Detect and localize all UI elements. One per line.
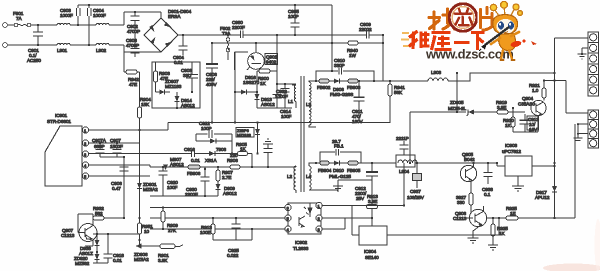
svg-text:100F: 100F <box>167 185 178 190</box>
svg-text:R906: R906 <box>227 158 238 163</box>
diode D909 AS012 <box>216 181 238 196</box>
wire lower snubber line <box>212 42 383 44</box>
capacitor C904b 0.01 <box>173 34 188 65</box>
svg-text:15K: 15K <box>141 102 150 107</box>
svg-text:1000F: 1000F <box>93 13 106 18</box>
bias box bottom rail <box>152 107 200 109</box>
svg-text:16V: 16V <box>529 127 538 132</box>
transformer secondary winding L4 <box>306 162 338 190</box>
watermark char pian <box>481 8 493 31</box>
svg-text:ERSA: ERSA <box>168 14 181 19</box>
main HV vertical bus <box>234 52 236 123</box>
inductor L902 <box>96 23 109 53</box>
svg-text:SE140: SE140 <box>365 255 379 260</box>
top ground bus <box>78 4 332 6</box>
svg-text:MZ1183: MZ1183 <box>165 84 182 89</box>
svg-text:220: 220 <box>230 153 238 158</box>
svg-text:AC250: AC250 <box>27 58 41 63</box>
wire <box>70 24 96 26</box>
wire pin1 riser <box>123 52 125 72</box>
wire <box>109 45 161 52</box>
svg-text:C907A: C907A <box>92 138 107 143</box>
IC904 SE140 <box>359 226 387 260</box>
wire <box>31 24 57 26</box>
svg-text:TL2633: TL2633 <box>293 246 309 251</box>
capacitor C909 2200P <box>359 22 383 39</box>
svg-text:AS012: AS012 <box>170 162 184 167</box>
wire <box>243 34 366 36</box>
svg-text:1.0: 1.0 <box>532 88 539 93</box>
capacitor C907A 680P <box>92 138 107 157</box>
IC902 pin 4 <box>285 226 291 232</box>
snubber cap over secondary <box>320 139 361 163</box>
diode D914 AS012 <box>175 92 196 108</box>
zener ZD920 MZ582 <box>74 251 100 266</box>
resistor R942 47E <box>124 70 140 87</box>
mascot brush <box>479 27 537 51</box>
svg-text:1K: 1K <box>499 231 506 236</box>
ground line under 907 caps <box>100 157 124 218</box>
resistor R913 3.9E <box>367 186 379 209</box>
capacitor C907 1500P <box>110 138 123 157</box>
wire lower returns <box>150 180 218 196</box>
IC902 pin 1 <box>316 202 322 208</box>
svg-text:22002: 22002 <box>359 27 372 32</box>
pin 5 <box>82 173 150 179</box>
resistor R951 10 <box>137 216 153 246</box>
capacitor C932 1000P <box>273 83 289 108</box>
capacitor C925 0.022 <box>227 228 253 258</box>
svg-text:1K: 1K <box>505 123 512 128</box>
inductor L903 <box>383 70 555 81</box>
svg-text:680P: 680P <box>94 144 105 149</box>
IC902 internal LED <box>304 207 312 215</box>
wire R921 top to connector <box>544 81 588 114</box>
svg-text:33U: 33U <box>183 73 192 78</box>
ferrite bead FB904 <box>318 161 332 173</box>
diode D910 PML-G125 <box>329 161 351 180</box>
svg-text:562: 562 <box>95 211 103 216</box>
wire to top connector <box>555 37 589 39</box>
wire Q907 emitter to rail <box>85 240 93 246</box>
AC input terminal bottom <box>3 43 8 48</box>
capacitor C920 100P <box>159 166 179 190</box>
capacitor C903 1000P <box>60 5 80 26</box>
svg-text:2.7E: 2.7E <box>222 175 231 180</box>
svg-text:FB906: FB906 <box>187 171 201 176</box>
diode D913 AS012 <box>255 71 276 108</box>
svg-text:B042: B042 <box>464 157 475 162</box>
IC902 internal phototransistor <box>298 217 300 226</box>
watermark magnifier with xin <box>449 4 477 32</box>
mid connector strip CN2 <box>588 110 599 148</box>
mascot body <box>491 32 519 60</box>
capacitor C911 470/160V <box>352 80 365 124</box>
svg-text:FMG-G26S: FMG-G26S <box>330 92 353 97</box>
svg-text:STR-D6601: STR-D6601 <box>47 119 71 124</box>
IC902 pin 3 <box>316 226 322 232</box>
pin 4 <box>82 162 150 168</box>
svg-text:L1: L1 <box>288 99 294 104</box>
svg-text:400V: 400V <box>206 82 218 87</box>
svg-text:7A: 7A <box>16 16 23 21</box>
svg-text:L3: L3 <box>306 102 312 107</box>
ferrite bead FB906 <box>187 165 201 176</box>
svg-text:25V: 25V <box>356 196 365 201</box>
svg-text:FB.1: FB.1 <box>334 144 344 149</box>
resistor R903 47E <box>154 62 171 92</box>
capacitor C924 <box>213 217 241 240</box>
svg-text:APU12: APU12 <box>535 195 550 200</box>
svg-text:3.9K: 3.9K <box>158 258 168 263</box>
svg-text:C35AS0: C35AS0 <box>518 102 535 107</box>
capacitor C922 100P <box>196 121 233 155</box>
capacitor C937 103/25V <box>407 162 425 200</box>
svg-text:100F: 100F <box>281 114 292 119</box>
wire riser from top bus <box>331 5 333 71</box>
svg-text:L2: L2 <box>287 174 293 179</box>
svg-text:4700P: 4700P <box>126 43 139 48</box>
svg-text:100P: 100P <box>288 14 299 19</box>
diode D907 AS012 <box>163 157 184 170</box>
watermark speed dashes <box>401 33 409 46</box>
resistor R900 1K <box>257 69 277 86</box>
capacitor C918 0.01 <box>104 233 125 263</box>
svg-text:MZ5A2: MZ5A2 <box>143 187 158 192</box>
B+ to connector vertical <box>554 38 556 163</box>
watermark red text ku <box>432 33 452 51</box>
wire <box>7 44 57 46</box>
diode D908 XS1A <box>205 147 238 163</box>
svg-text:0.01: 0.01 <box>174 60 183 65</box>
electrolytic C912 2200/25V <box>355 162 378 201</box>
capacitor C908 33U <box>181 62 198 92</box>
svg-text:C1213: C1213 <box>453 216 467 221</box>
right area verticals <box>410 73 457 163</box>
pink smudge bottom right <box>543 264 600 271</box>
capacitor C902 4700P <box>127 11 140 45</box>
bias supply box <box>152 62 200 108</box>
capacitor C914 100F <box>280 83 292 119</box>
ground secondary <box>333 180 343 191</box>
svg-text:PML-G125: PML-G125 <box>329 174 351 179</box>
inductor L901 <box>57 23 70 53</box>
svg-text:0.01: 0.01 <box>191 158 200 163</box>
svg-text:C1213: C1213 <box>61 233 75 238</box>
svg-text:IC902: IC902 <box>295 240 308 245</box>
transistor Q906 C1213 <box>453 206 487 227</box>
AC input terminal top <box>3 23 8 28</box>
svg-text:IC904: IC904 <box>364 249 377 254</box>
wire collector bus down to transformer <box>276 35 278 84</box>
transformer T901 core <box>301 76 304 192</box>
mascot head <box>493 15 518 35</box>
svg-text:IC901: IC901 <box>55 113 68 118</box>
svg-text:56K: 56K <box>394 90 403 95</box>
capacitor C901 <box>27 24 43 63</box>
svg-text:1000F: 1000F <box>275 94 288 99</box>
svg-text:0.47: 0.47 <box>112 186 121 191</box>
wire Q907 base <box>78 214 93 233</box>
secondary output rail <box>316 162 497 164</box>
svg-text:XS1A: XS1A <box>205 158 218 163</box>
resistor R910 1K <box>503 107 515 132</box>
svg-text:C907: C907 <box>110 138 121 143</box>
diode D906 FMG-G26S <box>329 79 353 98</box>
zener ZD905 MZ25-2L <box>410 100 497 116</box>
svg-text:C916: C916 <box>184 147 195 152</box>
svg-text:160V: 160V <box>352 119 364 124</box>
svg-text:4700P: 4700P <box>127 29 140 34</box>
IC903 uPC7812 <box>496 143 556 176</box>
IC902 pin 2 <box>316 215 322 221</box>
ferrite bead FB902 <box>315 79 331 90</box>
svg-text:AS012: AS012 <box>223 191 237 196</box>
connector CN2 ground loop <box>574 123 589 140</box>
resistor R913b 100E <box>200 217 215 240</box>
resistor R907 2.7E <box>216 166 233 181</box>
svg-text:100P: 100P <box>201 126 212 131</box>
ferrite bead FB903 <box>347 79 383 90</box>
svg-text:D910: D910 <box>333 168 344 173</box>
IC903 ground <box>512 176 524 191</box>
pin 3 <box>82 151 191 157</box>
standby rail vertical <box>574 124 576 218</box>
ferrite bead FB905 <box>347 161 361 173</box>
svg-text:FB902: FB902 <box>317 85 331 90</box>
watermark red text xia <box>471 33 485 51</box>
resistor R919 3.9E <box>496 100 525 114</box>
resistor R925 1K <box>488 218 508 250</box>
IC902 pin 5 <box>285 215 291 221</box>
IC901 STR-D6601 <box>45 113 82 186</box>
resistor R927 330 <box>456 181 473 218</box>
wires into IC902 left <box>150 208 285 230</box>
capacitor C904 1000P <box>87 4 106 46</box>
wire bias to transformer <box>257 84 296 108</box>
resistor R901 3.9K <box>150 244 183 263</box>
svg-text:AS012: AS012 <box>261 102 275 107</box>
svg-text:1K: 1K <box>240 147 247 152</box>
pin 2 <box>82 140 139 146</box>
svg-text:MZ582: MZ582 <box>75 261 90 266</box>
svg-text:L4: L4 <box>306 174 312 179</box>
svg-text:FB905: FB905 <box>347 168 361 173</box>
diode D916 1SS270 <box>235 75 260 95</box>
wires out IC902 right <box>322 206 404 230</box>
diode D938 AS01Z <box>79 233 100 256</box>
svg-text:1W: 1W <box>349 53 357 58</box>
wire <box>70 44 96 46</box>
fuse F902 <box>220 26 231 60</box>
svg-text:uPC7812: uPC7812 <box>502 149 521 154</box>
svg-text:AS012: AS012 <box>181 103 195 108</box>
svg-text:MZ1183: MZ1183 <box>237 133 252 138</box>
svg-text:330: 330 <box>457 200 465 205</box>
capacitor C980 2200P <box>232 20 245 38</box>
svg-text:T2A: T2A <box>222 31 231 36</box>
watermark red text wei <box>409 31 430 49</box>
svg-text:1E: 1E <box>510 211 516 216</box>
resistor R941 56K <box>359 80 405 123</box>
transistor Q905 B642 <box>460 152 476 182</box>
capacitor C930 2200P <box>185 167 210 197</box>
wire <box>7 24 14 26</box>
transistor Q907 C1213 <box>61 218 97 242</box>
resistor R925b 1E <box>493 206 575 220</box>
resistor R932 562 <box>93 206 125 220</box>
resistor R921 1.0 <box>529 79 546 100</box>
svg-text:330P: 330P <box>334 63 345 68</box>
inductor L904 <box>396 155 417 174</box>
watermark char zhao <box>429 9 455 29</box>
Q906 base wire <box>487 217 493 219</box>
resistor R904 15K <box>138 72 152 181</box>
svg-text:3.9E: 3.9E <box>368 199 377 204</box>
top connector strip CN1 <box>588 32 599 96</box>
transistor Q901 <box>247 42 278 70</box>
opto IC902 TL2633 box <box>288 203 321 251</box>
zener ZD908 MZ1183 <box>236 121 260 154</box>
svg-text:1500F: 1500F <box>110 144 123 149</box>
electrolytic C913 10/16V <box>513 114 539 132</box>
capacitor C916 0.01 <box>184 147 209 163</box>
fuse F901 <box>13 11 31 27</box>
svg-text:2211P: 2211P <box>396 136 409 141</box>
wire C912 to ground rail <box>338 176 372 180</box>
svg-text:103/25V: 103/25V <box>407 195 425 200</box>
svg-text:1K: 1K <box>260 81 267 86</box>
snubber return rail <box>168 108 359 123</box>
electrolytic C906 220/400V <box>206 42 218 123</box>
control row: main drive line <box>150 166 292 168</box>
svg-text:L903: L903 <box>431 70 442 75</box>
svg-text:L902: L902 <box>96 48 107 53</box>
svg-text:0.022: 0.022 <box>227 253 239 258</box>
snubber top wire with C910 <box>316 58 374 81</box>
resistor R905 1K <box>236 142 253 168</box>
wire base rail <box>93 234 140 263</box>
node at snubber right <box>382 34 384 36</box>
pin 1 <box>82 123 168 134</box>
svg-text:MZ5A2: MZ5A2 <box>134 257 149 262</box>
transformer primary winding L1 <box>288 85 296 108</box>
svg-text:1000F: 1000F <box>60 13 73 18</box>
svg-text:0.01: 0.01 <box>113 258 122 263</box>
transistor Q904 C35AS0 <box>518 96 546 116</box>
capacitor C906b 0.47 <box>111 165 129 191</box>
svg-text:0.1: 0.1 <box>484 192 491 197</box>
svg-text:10: 10 <box>144 229 150 234</box>
svg-text:Q904: Q904 <box>522 96 534 101</box>
zener ZD906 MZ5A2 <box>134 244 150 263</box>
svg-text:3.9E: 3.9E <box>497 105 506 110</box>
wires around IC904 <box>352 163 499 235</box>
capacitor C905 100P <box>288 4 300 36</box>
svg-text:IC903: IC903 <box>505 143 518 148</box>
resistor R909 27K <box>161 206 178 233</box>
bridge rectifier D901-D904 ERSA <box>144 9 192 52</box>
svg-text:7906: 7906 <box>216 147 227 152</box>
Q901 stage box <box>228 52 248 70</box>
wire <box>109 12 161 25</box>
svg-text:FB904: FB904 <box>318 168 332 173</box>
resistor R906 220 <box>227 153 240 169</box>
resistor R940 1W <box>347 41 358 58</box>
diode D912 <box>196 139 232 144</box>
capacitor C917 2211P <box>396 136 409 164</box>
svg-text:2200F: 2200F <box>232 25 245 30</box>
zener ZD907 MZ1183 <box>156 79 182 95</box>
svg-text:L901: L901 <box>57 48 68 53</box>
capacitor C924 on drive line <box>263 139 273 168</box>
wire <box>382 35 384 81</box>
transformer aux winding L3 <box>306 81 316 127</box>
svg-text:27K: 27K <box>168 228 177 233</box>
svg-text:47E: 47E <box>129 82 137 87</box>
transformer primary winding L2 <box>287 166 296 193</box>
capacitor C938 0.1 <box>482 162 493 197</box>
svg-text:9402: 9402 <box>266 60 277 65</box>
Q906 emitter ground <box>468 225 482 244</box>
ground at connector <box>578 48 589 59</box>
svg-text:C937: C937 <box>410 189 421 194</box>
zener ZD901 MZ5A2 <box>137 181 158 216</box>
mascot antennae <box>490 1 522 17</box>
svg-text:100E: 100E <box>200 230 211 235</box>
capacitor C903b 4700P <box>126 38 140 57</box>
IC902 pin 6 <box>285 204 291 210</box>
watermark red text yi <box>454 41 470 44</box>
B+ wire from bridge <box>178 34 240 36</box>
diode D917 APU12 <box>535 162 557 219</box>
